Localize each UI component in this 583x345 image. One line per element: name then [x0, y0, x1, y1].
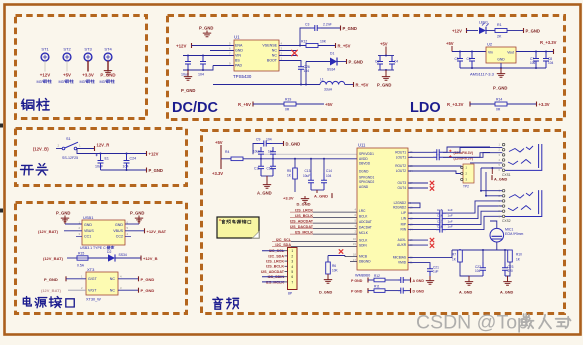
- capacitor C10 10uF: [253, 147, 264, 159]
- ground A_GND caps: [257, 176, 272, 196]
- svg-text:R12: R12: [301, 40, 307, 44]
- wire NC row2 stub: [279, 55, 297, 57]
- no connect X AUXR: [430, 243, 434, 247]
- net label +12V switch out: [147, 151, 159, 156]
- wire I2S_MCLK bus: [262, 281, 285, 283]
- wire I2S_BCLK to U11: [313, 217, 357, 219]
- svg-text:10uF: 10uF: [95, 165, 104, 169]
- svg-text:P GND: P GND: [351, 289, 363, 293]
- wire usb gnd left: [65, 223, 82, 225]
- wire up to compensation cap: [300, 28, 311, 46]
- net label +3.3V: [537, 102, 550, 107]
- net label (12V_BAT) usb: [38, 229, 59, 234]
- section box DC/DC + LDO: [168, 16, 565, 120]
- svg-text:33uH: 33uH: [324, 88, 333, 92]
- op-amp U2 AMS1117-3.3 regulator: [470, 42, 516, 77]
- svg-text:I2S_BCLK: I2S_BCLK: [266, 265, 284, 269]
- svg-text:RIN: RIN: [401, 228, 407, 232]
- wire BOOT to C26: [279, 61, 301, 65]
- svg-text:+3.3V: +3.3V: [283, 195, 294, 200]
- svg-text:P_GND: P_GND: [493, 86, 507, 91]
- svg-text:10uF: 10uF: [303, 174, 310, 178]
- ground P_GND under ST4: [104, 68, 112, 74]
- capacitor C24 104: [123, 154, 137, 171]
- svg-text:U11: U11: [358, 143, 366, 148]
- wire to diode: [306, 61, 330, 63]
- svg-text:+12V_B: +12V_B: [143, 256, 158, 261]
- svg-text:CXS1: CXS1: [502, 173, 511, 177]
- svg-text:TPS5430: TPS5430: [233, 74, 252, 79]
- svg-text:R12: R12: [374, 274, 380, 278]
- capacitor C16 1uF: [436, 213, 453, 221]
- connector CXS2 headphone jack 2: [499, 189, 542, 223]
- svg-text:OUT4: OUT4: [397, 186, 406, 190]
- wire R5 to +3.3V: [294, 179, 296, 192]
- net label I2S_LRCK: [290, 209, 313, 213]
- svg-text:BCLK: BCLK: [359, 215, 368, 219]
- svg-text:0.5A: 0.5A: [77, 263, 85, 267]
- wire R1 to P_GND: [507, 30, 523, 32]
- svg-text:104: 104: [268, 149, 274, 153]
- wire bottom rail: [101, 169, 147, 171]
- diode D2 SS34: [107, 250, 127, 262]
- wire +12V to LED1: [467, 30, 479, 32]
- wire GND row: [210, 50, 234, 52]
- svg-text:NC: NC: [110, 289, 116, 293]
- svg-text:+12V_BAT: +12V_BAT: [147, 229, 167, 234]
- svg-text:LED1: LED1: [479, 21, 488, 25]
- connector USB1 TYPE-C: [82, 215, 125, 245]
- svg-text:S1: S1: [66, 137, 71, 141]
- capacitor C17 1uF: [436, 219, 453, 227]
- ground D_GND under R6: [319, 274, 333, 294]
- wire from ST2: [66, 61, 68, 72]
- net label I2S_BCLK: [290, 214, 313, 218]
- svg-text:15: 15: [353, 242, 357, 246]
- wire LDO input rail: [452, 51, 486, 53]
- svg-text:104: 104: [548, 61, 554, 65]
- capacitor C15 1uF: [436, 208, 453, 216]
- ground A_GND bottom2: [500, 276, 514, 294]
- wire VMID: [408, 263, 430, 264]
- svg-text:R5: R5: [287, 169, 291, 173]
- svg-text:MCLK: MCLK: [359, 231, 369, 235]
- capacitor E1 10uF polarized: [95, 154, 109, 171]
- sheet edge tick marks: [0, 124, 3, 128]
- svg-text:1uF: 1uF: [448, 208, 453, 212]
- wire I2S_ADCDAT to U11: [313, 222, 357, 224]
- net label R_+3.3V bottom link: [447, 102, 470, 107]
- svg-text:P_GND: P_GND: [199, 26, 213, 31]
- note box annotation: [217, 217, 259, 238]
- pin numbers U1 left: [229, 42, 231, 66]
- svg-text:17: 17: [353, 258, 357, 262]
- wire bus to jack1 pin6: [481, 167, 502, 169]
- svg-text:R14: R14: [496, 98, 502, 102]
- svg-text:SS-12F25: SS-12F25: [62, 156, 78, 160]
- net label +3.3V below: [212, 159, 223, 176]
- wire LOUT1 row: [408, 156, 433, 158]
- svg-text:G/GT: G/GT: [88, 277, 98, 281]
- wire R14 to +3.3V: [507, 103, 536, 105]
- resistor R7 1K: [452, 250, 462, 262]
- wire bias rail: [452, 249, 510, 251]
- svg-text:VBUS: VBUS: [113, 229, 123, 233]
- resistor R10 1K: [508, 250, 522, 262]
- wire VSENSE row: [279, 45, 306, 47]
- svg-text:CC1: CC1: [84, 235, 91, 239]
- wire cap C40 to jack1 pin2: [443, 148, 502, 153]
- pin numbers U11 right: [410, 150, 414, 264]
- resistor R19 0R: [284, 98, 296, 112]
- svg-text:106: 106: [530, 61, 536, 65]
- svg-text:WM8960: WM8960: [355, 274, 370, 278]
- svg-text:R_+3.3V: R_+3.3V: [540, 40, 557, 45]
- svg-text:5: 5: [291, 270, 293, 274]
- svg-text:C4: C4: [394, 60, 398, 64]
- svg-text:+5V: +5V: [63, 73, 71, 78]
- svg-text:R2GND2: R2GND2: [393, 206, 406, 210]
- svg-text:+5V: +5V: [446, 41, 454, 46]
- net label R_+3.3V LDO out: [540, 40, 557, 54]
- wire PH node vertical: [305, 62, 307, 85]
- net label A_GND mid: [314, 190, 332, 198]
- capacitor C5 10uF: [455, 52, 464, 69]
- power port P_GND LED: [524, 28, 540, 34]
- svg-text:A_GND: A_GND: [500, 290, 514, 294]
- ground A_GND bottom1: [459, 276, 473, 294]
- svg-text:R_+5V: R_+5V: [238, 102, 251, 107]
- svg-text:C11: C11: [254, 167, 260, 171]
- svg-text:+5V: +5V: [380, 42, 388, 47]
- capacitor C6 104: [467, 52, 476, 69]
- value label M3铜柱 under ST1: [37, 79, 52, 84]
- section label 铜柱: [21, 99, 49, 111]
- svg-text:SCLK: SCLK: [359, 239, 368, 243]
- capacitor C14 104: [321, 159, 332, 190]
- svg-text:ST4: ST4: [104, 47, 112, 52]
- ground P_GND usb left: [56, 211, 70, 224]
- svg-text:SDIN: SDIN: [359, 244, 367, 248]
- net label I2S_BCLK header: [266, 265, 287, 269]
- svg-text:P_GND: P_GND: [141, 277, 155, 282]
- resistor R4 ferrite: [221, 150, 243, 160]
- ground P_GND usb right: [130, 211, 144, 224]
- svg-text:D_GND: D_GND: [319, 290, 333, 294]
- wire to switch: [56, 148, 62, 150]
- standoff ST1: [41, 47, 49, 61]
- wire to jack pin r1: [443, 147, 490, 152]
- wire OUT4 stub: [408, 187, 428, 189]
- net label (220uF/6.3V) r1: [449, 150, 473, 155]
- net label +12V_BAT: [145, 228, 167, 234]
- svg-text:R_+3.3V: R_+3.3V: [447, 102, 464, 107]
- svg-text:A_GND: A_GND: [314, 193, 328, 198]
- svg-text:AGND: AGND: [359, 185, 369, 189]
- value label USB3.1 TYPE C 6P母座: [80, 246, 114, 250]
- wire cap rail top: [378, 55, 394, 57]
- svg-text:SPKVDD1: SPKVDD1: [359, 152, 374, 156]
- inductor L1 33uH: [320, 78, 345, 92]
- svg-text:R19: R19: [285, 98, 291, 102]
- wire L2GND rows: [408, 203, 420, 208]
- svg-text:U1: U1: [234, 35, 240, 40]
- svg-text:(12V_B): (12V_B): [33, 146, 49, 151]
- svg-text:R_+5V: R_+5V: [338, 44, 351, 49]
- net label A_GND link row1: [406, 278, 424, 283]
- resistor R5 vertical: [287, 159, 297, 179]
- svg-text:SPKGND2: SPKGND2: [359, 180, 374, 184]
- wire MICBIAS: [408, 250, 452, 258]
- wire I2S_SDIN bus: [262, 276, 285, 278]
- svg-text:A_GND: A_GND: [459, 290, 473, 294]
- wire C26 down to rail: [300, 72, 302, 85]
- section box 音频: [202, 131, 565, 314]
- resistor R6 10K: [326, 256, 339, 275]
- net label P_GND xt right bottom: [139, 288, 155, 294]
- ground P_GND LDO: [493, 68, 507, 91]
- power port +5V audio: [215, 140, 223, 159]
- wire C17 row: [408, 224, 436, 226]
- svg-text:104: 104: [326, 174, 332, 178]
- connector P1 7P header: [288, 248, 298, 296]
- net label +12V input: [176, 43, 192, 48]
- svg-text:+12V: +12V: [176, 43, 186, 48]
- wire C18 to jack2: [446, 216, 502, 229]
- svg-text:2.2nF: 2.2nF: [323, 23, 332, 27]
- svg-text:M3: M3: [100, 80, 105, 84]
- svg-text:CSDN @Top: CSDN @Top: [416, 312, 528, 334]
- capacitor C22 104: [475, 250, 486, 276]
- svg-text:MIC1: MIC1: [505, 228, 513, 232]
- svg-text:LOUT1: LOUT1: [396, 155, 407, 159]
- svg-text:P_GND: P_GND: [377, 83, 391, 88]
- wire R12 to R_+5V: [318, 45, 335, 47]
- net label +12V_B: [141, 256, 158, 262]
- value label M3铜柱 under ST3: [80, 79, 95, 84]
- standoff ST4: [104, 47, 112, 61]
- svg-text:ECM-9*5mm: ECM-9*5mm: [505, 232, 524, 236]
- resistor R14 0R: [495, 98, 507, 112]
- svg-text:+3.3V: +3.3V: [82, 73, 94, 78]
- ground A_GND jack1: [492, 168, 508, 182]
- svg-text:ST1: ST1: [41, 47, 49, 52]
- svg-text:R11: R11: [374, 285, 380, 289]
- svg-text:R15: R15: [78, 252, 84, 256]
- svg-text:C6: C6: [467, 57, 471, 61]
- net label D_GND link row2: [406, 288, 424, 293]
- svg-text:(12V_BAT): (12V_BAT): [38, 229, 59, 234]
- connector TP2 jumper: [461, 164, 474, 188]
- svg-text:10K: 10K: [320, 40, 327, 44]
- svg-text:LOUT2: LOUT2: [396, 169, 407, 173]
- wire caps bottom: [261, 175, 273, 177]
- wire top rail of caps: [77, 149, 146, 154]
- resistor R11 link: [368, 285, 385, 293]
- svg-text:M3: M3: [59, 80, 64, 84]
- svg-text:+3.3V: +3.3V: [212, 171, 223, 176]
- svg-text:C16: C16: [437, 213, 443, 217]
- net label I2S_MCLK: [290, 231, 313, 235]
- wire C9 left leg: [253, 144, 258, 155]
- wire U2 GND down: [500, 63, 502, 68]
- capacitor C18 1uF: [436, 224, 453, 232]
- svg-text:P_GND: P_GND: [141, 288, 155, 293]
- capacitor C9 104 top: [256, 138, 272, 147]
- net label R_+5V: [336, 43, 351, 49]
- svg-text:104: 104: [475, 269, 481, 273]
- svg-text:C14: C14: [326, 169, 332, 173]
- svg-text:Vout: Vout: [507, 50, 514, 54]
- svg-text:SPKGND1: SPKGND1: [359, 176, 374, 180]
- svg-text:0R: 0R: [285, 108, 290, 112]
- svg-text:P_GND: P_GND: [44, 277, 58, 282]
- svg-text:I2S_LRCK: I2S_LRCK: [266, 260, 284, 264]
- wire AUXR stub: [408, 244, 428, 246]
- wire xt pin1: [66, 278, 86, 280]
- net label P_GND xt left: [44, 276, 66, 282]
- svg-text:RIP: RIP: [401, 223, 406, 227]
- wire bus down to jack2 pin2: [486, 172, 502, 196]
- net label I2C_SDA: [272, 243, 291, 247]
- capacitor C23 220: [502, 250, 514, 276]
- op-amp U1 TPS5430 regulator IC: [233, 35, 279, 79]
- wire bus down to jack2 pin1: [481, 168, 502, 191]
- svg-text:1uF: 1uF: [448, 224, 453, 228]
- wire AUXL stub: [408, 239, 428, 241]
- capacitor C25 link: [385, 288, 406, 294]
- wire vbus right: [125, 230, 144, 232]
- diode D1 SS34: [327, 52, 337, 72]
- wire from ST4: [107, 61, 109, 72]
- svg-text:D1: D1: [330, 52, 334, 56]
- net label R_+5V bottom link: [238, 102, 253, 107]
- connector CXS1 headphone jack 1: [499, 143, 542, 177]
- wire to R19: [253, 103, 284, 105]
- svg-text:TP2: TP2: [463, 184, 469, 188]
- svg-text:10uF: 10uF: [181, 73, 190, 77]
- net label I2S_SDIN header: [268, 275, 288, 279]
- svg-text:NC: NC: [272, 49, 278, 53]
- wire to jack pin r2: [443, 153, 490, 158]
- wire C13 C14 bottom: [311, 189, 324, 191]
- svg-text:R1: R1: [497, 23, 502, 27]
- svg-text:D2: D2: [107, 250, 111, 254]
- svg-text:C18: C18: [437, 224, 443, 228]
- op-amp U11 WM8960 audio codec IC: [355, 143, 408, 278]
- wire I2S_DACDAT to U11: [313, 228, 357, 230]
- svg-text:1uF: 1uF: [448, 219, 453, 223]
- capacitor C12 104 lower: [267, 159, 277, 176]
- svg-text:Vin: Vin: [488, 50, 493, 54]
- svg-text:104: 104: [198, 73, 204, 77]
- svg-text:P_GND: P_GND: [343, 26, 357, 31]
- wire to P_GND port: [321, 27, 340, 29]
- wire I2C_SCL to U11: [291, 241, 357, 243]
- wire VIN row with caps: [183, 55, 234, 57]
- svg-text:+5V: +5V: [325, 102, 333, 107]
- net label P_GND link row2: [351, 288, 368, 293]
- wire dbgnd row to IC: [350, 261, 357, 263]
- net label I2C_SCL: [272, 238, 292, 242]
- svg-text:0R: 0R: [496, 108, 501, 112]
- capacitor C8 104: [543, 52, 554, 69]
- wire R7 down: [460, 262, 469, 276]
- value label M3铜柱 under ST2: [59, 79, 74, 84]
- svg-text:L2GND2: L2GND2: [394, 201, 407, 205]
- svg-text:+12V: +12V: [40, 73, 50, 78]
- standoff ST3: [84, 47, 92, 61]
- svg-text:A_GND: A_GND: [257, 191, 272, 196]
- LED LED1: [479, 21, 489, 34]
- wire LOUT2 row: [408, 171, 461, 174]
- svg-text:104: 104: [123, 165, 129, 169]
- wire xt pin4: [118, 278, 138, 280]
- wire +12V to ENA: [192, 45, 235, 47]
- svg-text:18: 18: [353, 252, 357, 256]
- section label 音频: [213, 297, 239, 309]
- svg-text:LRC: LRC: [359, 209, 366, 213]
- power port P_GND comp: [341, 26, 357, 32]
- wire C16 to jack2: [446, 206, 502, 219]
- svg-text:10K: 10K: [332, 269, 339, 273]
- svg-text:A_GND: A_GND: [494, 178, 508, 182]
- capacitor C19 link: [385, 277, 406, 283]
- svg-text:P_GND: P_GND: [149, 168, 163, 173]
- no connect X AUXL: [430, 238, 434, 242]
- svg-text:E1: E1: [105, 157, 109, 161]
- svg-text:7: 7: [291, 280, 293, 284]
- svg-text:+12V: +12V: [452, 29, 462, 34]
- resistor R12 10K feedback: [301, 40, 327, 48]
- net label I2C_SDA header: [268, 254, 287, 258]
- svg-text:XT30_W: XT30_W: [86, 297, 101, 301]
- no connect X OUT3: [430, 181, 434, 185]
- section label 开关: [21, 164, 48, 175]
- wire LDO output rail: [516, 51, 553, 53]
- pin numbers U1 right: [281, 42, 283, 61]
- wire NC row1 stub: [279, 50, 297, 52]
- svg-text:LIN: LIN: [401, 217, 407, 221]
- net label P_GND xt right top: [139, 276, 155, 282]
- svg-text:AUXR: AUXR: [397, 243, 407, 247]
- svg-text:LIP: LIP: [401, 211, 406, 215]
- power port D_GND top: [284, 141, 301, 147]
- net label I2S_ADCDAT header: [261, 270, 287, 274]
- capacitor C3 2.2nF compensation: [311, 25, 321, 31]
- svg-text:I2C_SDA: I2C_SDA: [268, 254, 284, 258]
- svg-text:R7: R7: [452, 253, 456, 257]
- svg-text:(220uF/6.3V): (220uF/6.3V): [454, 151, 473, 155]
- svg-text:DBVDD: DBVDD: [359, 161, 371, 165]
- wire bus to jack1 pin5: [470, 162, 502, 164]
- svg-text:P_GND: P_GND: [100, 73, 115, 78]
- resistor R1 2K: [495, 23, 507, 39]
- ground P_GND output caps: [377, 70, 391, 88]
- svg-text:SS34: SS34: [119, 253, 127, 257]
- section box 电源接口: [16, 203, 187, 314]
- svg-text:L1: L1: [320, 78, 324, 82]
- svg-text:2K: 2K: [497, 35, 502, 39]
- svg-text:PAD: PAD: [235, 64, 243, 68]
- svg-text:P GND: P GND: [351, 279, 363, 283]
- svg-text:OUT3: OUT3: [397, 181, 406, 185]
- section box 铜柱: [16, 16, 147, 119]
- svg-text:104: 104: [266, 138, 272, 142]
- power port P_GND diode: [347, 59, 363, 65]
- svg-text:1uF: 1uF: [448, 213, 453, 217]
- svg-text:NC: NC: [110, 277, 116, 281]
